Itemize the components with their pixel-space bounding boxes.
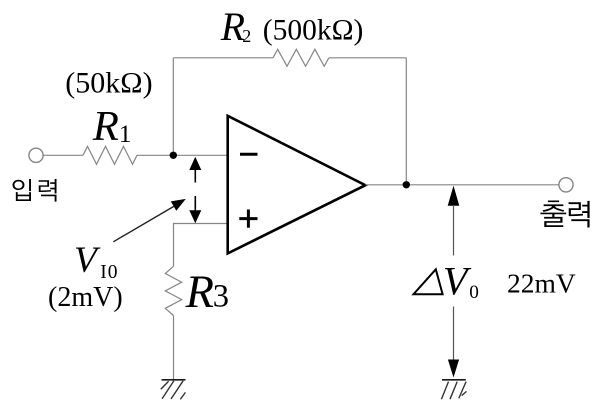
svg-text:3: 3: [213, 279, 229, 315]
dimension arrow down (delta V0): [448, 307, 459, 378]
input terminal: [29, 148, 43, 162]
wire feedback top left: [173, 57, 273, 59]
label input (Hangul 입): [13, 179, 31, 201]
wire feedback top right: [329, 57, 406, 59]
label input (Hangul 력): [39, 179, 57, 202]
svg-text:1: 1: [119, 119, 132, 148]
op-amp U1: [228, 116, 366, 254]
wire output: [365, 184, 559, 186]
label output (Hangul 력): [569, 201, 590, 228]
svg-text:(50kΩ): (50kΩ): [65, 67, 152, 100]
ground (right, under dimension arrow): [441, 380, 466, 399]
offset down arrow (at noninverting input): [189, 196, 201, 223]
svg-text:R: R: [185, 267, 214, 318]
wire R3 to ground: [173, 316, 175, 380]
junction output node: [403, 181, 410, 188]
svg-text:R: R: [92, 103, 119, 150]
wire plus node down to R3: [173, 223, 175, 266]
svg-text:(500kΩ): (500kΩ): [263, 15, 364, 47]
wire input to R1: [43, 154, 83, 156]
resistor R3: [165, 266, 181, 315]
op-amp plus sign: [239, 210, 257, 228]
wire feedback down to output node: [405, 58, 407, 185]
wire noninverting input: [174, 223, 228, 225]
ground (left, under R3): [161, 380, 186, 400]
resistor R1: [83, 146, 137, 164]
wire R1 to inverting input: [137, 154, 228, 156]
svg-text:2: 2: [242, 26, 251, 46]
label output (Hangul 출): [540, 201, 566, 227]
svg-text:(2mV): (2mV): [48, 282, 123, 313]
label delta V0 triangle: [414, 269, 443, 294]
wire node A up to feedback: [172, 58, 174, 156]
leader arrow from VI0 label: [113, 199, 186, 242]
dimension arrow up (delta V0): [448, 186, 460, 256]
op-amp minus sign: [240, 153, 258, 156]
offset up arrow (at inverting input): [189, 157, 201, 183]
junction node A (inverting input): [170, 152, 177, 159]
resistor R2: [273, 49, 329, 66]
svg-text:22mV: 22mV: [507, 267, 576, 298]
output terminal: [559, 178, 573, 192]
svg-text:0: 0: [469, 282, 479, 303]
svg-text:R: R: [220, 5, 245, 49]
svg-text:I0: I0: [100, 262, 118, 283]
